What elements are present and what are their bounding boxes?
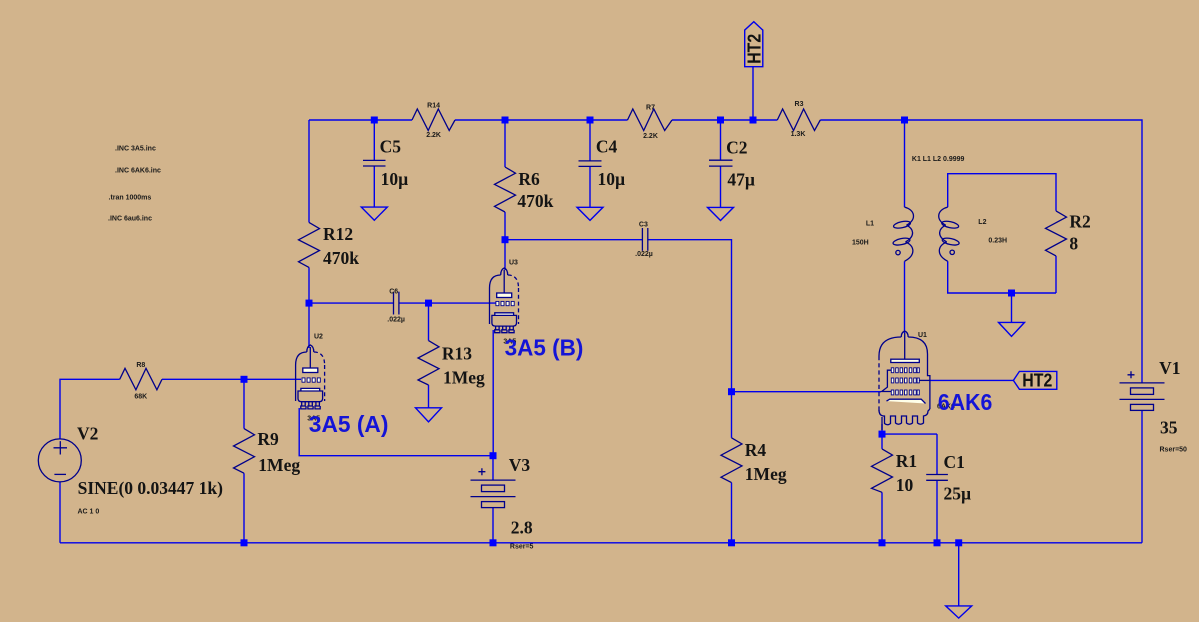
wire C5 top [373, 120, 375, 160]
ground C5 [361, 207, 387, 220]
annotation 3A5 (B) [503, 334, 583, 360]
svg-text:1Meg: 1Meg [258, 455, 300, 475]
resistor R2 [1046, 211, 1067, 256]
wire bottom rail [60, 542, 1142, 544]
wire R6 top [504, 120, 506, 167]
label V3 [509, 455, 534, 551]
label R4 [745, 440, 787, 484]
resistor R8 [120, 368, 162, 390]
svg-text:10µ: 10µ [381, 169, 409, 189]
svg-text:470k: 470k [323, 248, 359, 268]
label U1 [918, 332, 927, 339]
wire L2 top to R2 [948, 174, 1056, 211]
svg-text:.022µ: .022µ [387, 317, 405, 324]
svg-text:U3: U3 [509, 260, 518, 267]
annotation 6AK6 [937, 389, 992, 415]
svg-text:SINE(0 0.03447 1k): SINE(0 0.03447 1k) [78, 478, 224, 498]
wire U3 cathode [492, 330, 494, 456]
label C2 [726, 138, 755, 190]
wire C4 bottom [589, 166, 591, 207]
wire mid row y303 right [399, 302, 497, 304]
annotation 3A5 (A) [307, 411, 388, 437]
tube U3 triode 3A5(B) [490, 268, 519, 333]
ground C2 [708, 207, 734, 220]
svg-text:HT2: HT2 [744, 34, 764, 64]
svg-text:Rser=5: Rser=5 [510, 543, 534, 550]
wire V3 top lead [492, 456, 494, 480]
wire L1 top [904, 120, 906, 207]
directive .INC 6au6.inc [108, 216, 152, 223]
node squares [241, 117, 1016, 547]
svg-text:3A5 (A): 3A5 (A) [309, 411, 389, 437]
battery V3 [471, 468, 516, 507]
label V2 [77, 424, 223, 516]
svg-text:.INC 6AK6.inc: .INC 6AK6.inc [115, 168, 161, 175]
label U3 [509, 260, 518, 267]
wire U1 cathode drop [881, 424, 883, 434]
resistor R9 [234, 429, 255, 474]
wire row y239 right and drop to R4 [648, 240, 732, 392]
wire U2 cathode to V3 node [299, 408, 493, 456]
label V1 [1159, 358, 1187, 453]
resistor R7 [628, 109, 673, 131]
svg-text:V2: V2 [77, 424, 98, 444]
svg-text:25µ: 25µ [944, 484, 972, 504]
svg-text:.tran 1000ms: .tran 1000ms [109, 195, 152, 202]
label R13 [442, 344, 485, 388]
wire bottom ground stem [958, 543, 960, 606]
directive .tran 1000ms [109, 195, 152, 202]
resistor R6 [495, 167, 516, 212]
wire HT2 stem [752, 67, 754, 120]
label C1 [944, 452, 972, 504]
wire R9 top lead [243, 379, 245, 428]
label R7 [643, 105, 658, 140]
svg-text:3A5 (B): 3A5 (B) [505, 334, 584, 360]
wire C5 bottom [373, 166, 375, 207]
svg-text:R3: R3 [795, 101, 804, 108]
wire left branch R12 [308, 120, 310, 222]
wire R4 bottom lead [731, 483, 733, 543]
svg-text:470k: 470k [517, 191, 553, 211]
wire R13 bottom lead [428, 385, 430, 408]
svg-text:C6: C6 [389, 288, 398, 295]
wire C4 top [589, 120, 591, 161]
svg-text:R13: R13 [442, 344, 472, 364]
wire xfmr ground stem [1011, 293, 1013, 322]
wire R9 bottom lead [243, 473, 245, 543]
ground R13 [416, 408, 442, 422]
svg-text:.INC 6au6.inc: .INC 6au6.inc [108, 216, 152, 223]
svg-text:HT2: HT2 [1022, 370, 1052, 390]
svg-text:R4: R4 [745, 440, 767, 460]
wire L1 to U1 plate [904, 261, 906, 333]
svg-text:U1: U1 [918, 332, 927, 339]
svg-text:Rser=50: Rser=50 [1160, 446, 1188, 453]
svg-text:10: 10 [896, 475, 914, 495]
svg-text:V1: V1 [1159, 358, 1180, 378]
label R8 [134, 362, 147, 401]
capacitor C4 [579, 161, 602, 167]
svg-text:2.2K: 2.2K [426, 132, 441, 139]
wire secondary bottom [948, 261, 1056, 293]
capacitor C1 [926, 475, 948, 481]
label K statement [912, 156, 965, 163]
label C6 [387, 288, 405, 323]
wire top rail left [309, 119, 412, 121]
wire R4 top lead [731, 392, 733, 438]
svg-text:R2: R2 [1069, 212, 1090, 232]
label L1 [852, 221, 874, 247]
wire mid row y303 left [309, 302, 394, 304]
svg-text:47µ: 47µ [727, 170, 755, 190]
capacitor C2 [709, 160, 733, 166]
directive .INC 6AK6.inc [115, 168, 161, 175]
svg-text:0.23H: 0.23H [988, 237, 1007, 244]
svg-text:L2: L2 [978, 219, 986, 226]
wire top rail right to V1 [820, 120, 1142, 383]
svg-text:8: 8 [1069, 234, 1078, 254]
svg-text:35: 35 [1160, 417, 1178, 437]
svg-text:AC 1 0: AC 1 0 [78, 508, 100, 515]
label C5 [380, 137, 409, 189]
wire R12 to node [308, 267, 310, 303]
label R12 [323, 224, 359, 268]
label U2 [314, 334, 323, 341]
ground bottom [946, 606, 972, 618]
wire R1 top lead [881, 434, 883, 449]
svg-text:6AK6: 6AK6 [938, 389, 992, 415]
svg-text:U2: U2 [314, 334, 323, 341]
tube U1 pentode 6AK6 [879, 331, 930, 430]
capacitor C6 [394, 292, 399, 315]
wire V1 bottom [1141, 410, 1143, 542]
wire row y239 left [505, 239, 642, 241]
capacitor C5 [363, 160, 386, 166]
label C3 [635, 221, 653, 258]
wire cathode to C1 [882, 433, 937, 435]
flag HT2 right [1013, 370, 1056, 390]
inductor L1 [892, 207, 913, 261]
wire V2 to R8 [60, 379, 120, 439]
voltage source V2 [38, 439, 81, 482]
resistor R3 [777, 109, 820, 131]
directive .INC 3A5.inc [115, 146, 156, 153]
label R3 [791, 101, 806, 138]
wire U3 plate [504, 240, 506, 270]
wire R1 bottom lead [881, 492, 883, 543]
svg-text:R14: R14 [427, 103, 440, 110]
wire R6 bottom [504, 212, 506, 240]
label R1 [896, 451, 917, 495]
svg-text:R12: R12 [323, 224, 353, 244]
resistor R1 [872, 449, 893, 492]
wire V3 bottom lead [492, 508, 494, 543]
wire V2 bottom [59, 482, 61, 543]
resistor R4 [721, 438, 742, 483]
svg-text:C3: C3 [639, 221, 648, 228]
label R6 [517, 169, 553, 211]
svg-text:R6: R6 [518, 169, 540, 189]
svg-text:K1 L1 L2 0.9999: K1 L1 L2 0.9999 [912, 156, 965, 163]
label R9 [257, 429, 300, 475]
svg-text:.022µ: .022µ [635, 251, 653, 258]
wire U2 grid [244, 378, 301, 380]
svg-text:R7: R7 [646, 105, 655, 112]
wire C2 top [720, 120, 722, 160]
battery V1 [1120, 371, 1165, 410]
wire C1 top lead [936, 434, 938, 474]
label R2 [1069, 212, 1090, 254]
svg-text:68K: 68K [134, 394, 147, 401]
svg-text:10µ: 10µ [598, 169, 626, 189]
wire U1 grid [732, 391, 882, 393]
wire C2 bottom [720, 166, 722, 207]
capacitor C3 [642, 228, 647, 251]
resistor R12 [299, 222, 320, 267]
svg-text:150H: 150H [852, 240, 869, 247]
svg-text:C1: C1 [944, 452, 965, 472]
wire R2 bottom [1055, 256, 1057, 293]
resistor R13 [418, 341, 439, 385]
wire C1 bottom lead [936, 480, 938, 543]
svg-text:R9: R9 [257, 429, 279, 449]
wire R13 top lead [428, 303, 430, 341]
svg-text:R1: R1 [896, 451, 917, 471]
svg-text:V3: V3 [509, 455, 531, 475]
ground C4 [577, 207, 603, 220]
svg-text:C2: C2 [726, 138, 747, 158]
svg-text:1.3K: 1.3K [791, 131, 806, 138]
svg-text:2.2K: 2.2K [643, 133, 658, 140]
ground transformer [999, 322, 1025, 336]
svg-text:2.8: 2.8 [511, 517, 533, 537]
svg-text:C4: C4 [596, 136, 618, 156]
svg-text:L1: L1 [866, 221, 874, 228]
wire top rail mid1 [455, 119, 628, 121]
wire top rail mid2 [672, 119, 777, 121]
svg-text:1Meg: 1Meg [443, 368, 485, 388]
wire U1 screen to HT2 flag [930, 379, 1013, 381]
tube U2 triode 3A5(A) [296, 345, 325, 409]
label L2 [978, 219, 1007, 244]
flag HT2 top [744, 22, 764, 67]
svg-text:C5: C5 [380, 137, 402, 157]
label C4 [596, 136, 625, 189]
label R14 [426, 103, 441, 139]
inductor L2 [939, 207, 960, 261]
wire U2 plate [308, 303, 310, 348]
wire R8 to node [162, 378, 244, 380]
svg-text:1Meg: 1Meg [745, 464, 787, 484]
resistor R14 [412, 109, 455, 131]
svg-text:.INC 3A5.inc: .INC 3A5.inc [115, 146, 156, 153]
svg-text:R8: R8 [136, 362, 145, 369]
